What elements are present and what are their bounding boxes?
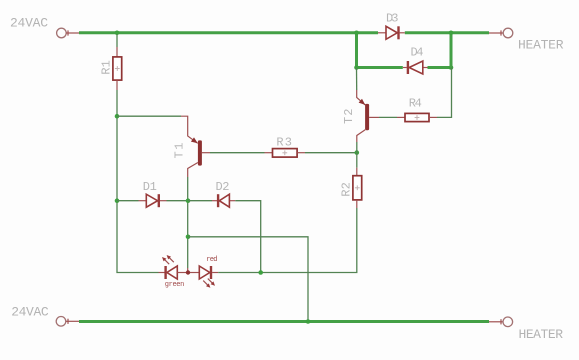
junction top rail / R1 column	[115, 31, 120, 36]
pin stub into LED junction	[187, 268, 189, 273]
svg-text:red: red	[206, 256, 217, 264]
pin stub R4 right	[429, 116, 437, 118]
pin HEATER top-right	[489, 28, 513, 38]
pin stub R2 bottom	[356, 200, 358, 208]
LED green emission arrows	[162, 255, 174, 264]
svg-text:24VAC: 24VAC	[11, 305, 49, 320]
wire: net from D4 row down to T2 emitter	[356, 68, 358, 91]
transistor T1 emitter arrow	[191, 137, 198, 143]
junction D1/D2/T1-collector	[186, 198, 191, 203]
resistor R3	[273, 149, 298, 158]
wire: top rail thick segment right (D3 to HEATER)	[405, 31, 489, 34]
transistor T1 (PNP) emitter path	[181, 116, 198, 143]
junction LED row / D2 branch	[258, 270, 263, 275]
svg-text:HEATER: HEATER	[519, 327, 564, 342]
LED green (reversed)	[166, 266, 178, 279]
resistor R2	[353, 176, 362, 200]
pin stub green LED right	[177, 272, 186, 274]
svg-text:R1: R1	[100, 60, 114, 75]
pin 24VAC top-left	[57, 28, 80, 38]
pin stub R4 left	[397, 116, 405, 118]
pin stub red LED left	[190, 272, 199, 274]
wire: net R2 bottom to LED row	[261, 208, 357, 273]
transistor T2 base pin	[369, 116, 379, 118]
svg-text:R2: R2	[339, 182, 353, 197]
pin stub red LED right	[212, 272, 218, 274]
junction D1/D2 row left	[115, 198, 120, 203]
transistor T1 base pin	[202, 152, 210, 154]
diode D3 pin stubs	[378, 32, 405, 34]
svg-text:24VAC: 24VAC	[10, 16, 48, 31]
pin stub R3 left	[265, 152, 273, 154]
wire: net from top rail down to R1	[116, 34, 118, 47]
wire: left column net R1 to LED row	[117, 90, 159, 273]
wire: net T1 base to R3	[210, 152, 265, 154]
wire: net T1 collector down middle column	[187, 177, 189, 268]
junction top rail right drop	[449, 31, 454, 36]
junction middle column / bottom tap	[186, 235, 191, 240]
svg-text:D1: D1	[143, 180, 157, 194]
junction D4 row left	[354, 65, 359, 70]
junction R3 / T2 collector / R2	[355, 150, 360, 155]
wire: net R3 to center junction	[305, 152, 357, 154]
pin stub R1 top	[116, 47, 118, 57]
junction left column / T1 emitter branch	[115, 114, 120, 119]
resistor R4	[405, 113, 429, 121]
diode D2 pin stubs	[212, 200, 235, 202]
wire: thick drop right of D3/D4 bridge	[450, 31, 453, 67]
svg-text:green: green	[165, 281, 185, 289]
wire: net junction down to R2	[356, 153, 358, 168]
svg-text:R4: R4	[409, 97, 422, 111]
diode D3	[386, 26, 399, 39]
wire: top rail thick segment left (24VAC to D3)	[79, 31, 378, 34]
pin stub R1 bottom	[116, 80, 118, 90]
transistor T2 collector path	[357, 130, 365, 142]
LED red emission arrows	[203, 279, 215, 288]
svg-text:R3: R3	[276, 136, 292, 150]
junction between LEDs (pin-level)	[186, 270, 190, 274]
svg-text:HEATER: HEATER	[518, 37, 564, 52]
svg-text:T2: T2	[342, 109, 356, 125]
diode D1	[146, 194, 159, 207]
wire: D4 row thick right	[428, 66, 452, 69]
svg-text:D4: D4	[411, 45, 424, 59]
wire: net D2 right down to LED row	[235, 201, 260, 273]
wire: net to T1 emitter	[117, 115, 181, 117]
diode D2 (reversed)	[218, 194, 229, 207]
transistor T1 collector path	[188, 163, 198, 178]
pin stub green LED left	[159, 272, 165, 274]
transistor T2 base bar	[365, 104, 369, 130]
svg-text:D3: D3	[386, 12, 399, 26]
pin 24VAC bottom-left	[56, 317, 80, 327]
wire: net T2 base to R4	[379, 116, 397, 118]
junction D4 row right	[449, 65, 454, 70]
wire: net center junction to D2	[188, 200, 212, 202]
diode D1 pin stubs	[139, 200, 167, 202]
transistor T2 emitter arrow	[359, 99, 366, 105]
transistor T2 (PNP) emitter path	[357, 90, 366, 105]
wire: net R4 right up to D4 row	[437, 68, 452, 118]
pin HEATER bottom-right	[489, 317, 513, 327]
transistor T1 base bar	[198, 140, 202, 165]
wire: bottom rail thick	[79, 320, 489, 323]
diode D4 (reversed)	[408, 61, 423, 74]
wire: net to D1	[117, 200, 139, 202]
junction bottom rail tap	[306, 319, 311, 324]
wire: net D1 to center junction	[167, 200, 189, 202]
wire: net red LED to D2 branch junction	[218, 272, 261, 274]
resistor R1	[113, 57, 122, 80]
junction top rail left drop	[354, 31, 359, 36]
LED red	[199, 266, 211, 279]
diode D4 pin stubs	[403, 67, 428, 69]
wire: net T2 collector down to junction	[356, 142, 358, 153]
wire: D4 row thick left	[357, 66, 403, 69]
wire: thick drop left of D3/D4 bridge	[355, 31, 358, 67]
pin stub R2 top	[356, 168, 358, 176]
pin stub R3 right	[297, 152, 305, 154]
svg-text:T1: T1	[173, 143, 187, 159]
svg-text:D2: D2	[216, 180, 230, 194]
wire: net middle tap to bottom rail	[188, 237, 308, 322]
